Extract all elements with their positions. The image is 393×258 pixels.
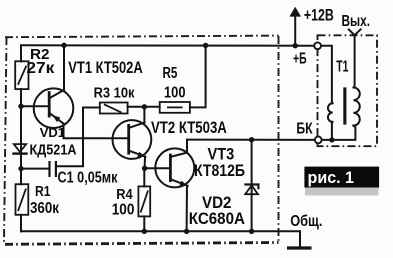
- wire VT2 emitter down: [144, 157, 146, 169]
- svg-text:Т1: Т1: [336, 59, 348, 76]
- svg-text:C1 0,05мк: C1 0,05мк: [58, 169, 118, 186]
- node +12V junction on rail: [293, 43, 298, 48]
- node VD1/C1/R1 junction: [18, 166, 23, 171]
- power +12V arrow: [289, 7, 301, 46]
- wire R2 to VD1: [20, 89, 22, 155]
- wire R4 top lead: [143, 168, 145, 186]
- node R4 on bottom rail: [142, 229, 147, 234]
- svg-text:КД521А: КД521А: [30, 142, 77, 159]
- svg-text:360к: 360к: [30, 200, 60, 217]
- wire bottom rail to ground: [299, 231, 301, 246]
- svg-text:+Б: +Б: [293, 51, 307, 68]
- wire R4 to bottom rail: [143, 216, 145, 231]
- figure caption ris.1 black box: [304, 167, 379, 196]
- wire bottom common rail: [21, 230, 300, 232]
- transformer T1 secondary winding: [353, 88, 359, 126]
- wire VT1 emitter to VT2 base: [64, 124, 128, 139]
- wire VT3 collector up to BK line: [186, 140, 188, 153]
- node primary bottom on BK line: [329, 137, 334, 142]
- svg-text:БК: БК: [296, 120, 312, 137]
- wire top supply rail: [21, 44, 314, 46]
- svg-text:VT2 КТ503А: VT2 КТ503А: [151, 119, 227, 137]
- wire C1 right lead up to R3: [57, 108, 100, 167]
- terminal +B circle: [314, 42, 321, 49]
- wire collector line to BK terminal: [187, 139, 315, 141]
- resistor R2: [15, 61, 28, 89]
- svg-text:VD1: VD1: [40, 125, 65, 140]
- svg-text:VT1 КТ502А: VT1 КТ502А: [68, 59, 142, 77]
- svg-text:100: 100: [164, 84, 186, 101]
- wire VT3 emitter to bottom rail: [186, 186, 188, 232]
- node R5 branch on rail: [203, 43, 208, 48]
- terminal BK circle: [315, 137, 322, 144]
- svg-text:Вых.: Вых.: [342, 13, 371, 30]
- capacitor C1: [50, 161, 56, 177]
- node VT2 collector junction: [142, 104, 147, 109]
- wire R3 to R5 rail: [128, 106, 160, 108]
- ground symbol: [287, 246, 312, 249]
- svg-text:R1: R1: [35, 183, 51, 200]
- transistor VT2: [112, 120, 151, 159]
- transformer T1 dashed enclosure border: [318, 35, 378, 146]
- wire R5 right to top rail: [190, 46, 206, 108]
- node VT1 collector on rail: [61, 43, 66, 48]
- svg-text:КС680А: КС680А: [189, 210, 245, 228]
- svg-text:Общ.: Общ.: [290, 213, 322, 230]
- diode VD1: [12, 144, 27, 154]
- zener diode VD2: [244, 185, 258, 195]
- transformer T1 primary winding: [328, 103, 333, 122]
- wire left branch: rail to R2: [20, 45, 22, 61]
- resistor R5: [160, 102, 190, 113]
- transformer T1 core: [343, 87, 346, 124]
- wire primary bottom: [331, 122, 333, 140]
- wire C1 left lead: [21, 168, 49, 170]
- wire VT1 base: [21, 105, 48, 107]
- svg-text:100: 100: [112, 202, 135, 219]
- svg-text:27к: 27к: [26, 60, 55, 77]
- wire VT1 collector to top rail: [63, 45, 65, 90]
- wire VT2 collector: [143, 107, 145, 123]
- svg-text:VT3: VT3: [208, 146, 235, 164]
- node base of VT1 junction: [18, 104, 23, 109]
- svg-text:R4: R4: [116, 186, 133, 203]
- wire VD2 top lead: [251, 140, 253, 194]
- resistor R4: [138, 186, 150, 216]
- output terminal Vykh antenna: [349, 29, 361, 87]
- svg-text:R5: R5: [163, 65, 178, 82]
- wire +B to primary winding: [321, 46, 332, 104]
- transistor VT3: [155, 148, 194, 187]
- main dashed enclosure border: [4, 36, 279, 245]
- wire R1 to bottom rail: [20, 215, 22, 232]
- resistor R3: [100, 103, 128, 114]
- svg-text:R3 10к: R3 10к: [94, 84, 135, 101]
- transistor VT1: [34, 88, 74, 128]
- svg-text:КТ812Б: КТ812Б: [194, 162, 245, 180]
- wire VD1 to C1/R1 node: [20, 155, 22, 184]
- node VD2 top junction: [249, 137, 254, 142]
- node VT3 emitter on bottom rail: [184, 229, 189, 234]
- node VD2 on bottom rail: [249, 229, 254, 234]
- wire to VT3 base: [145, 167, 169, 169]
- svg-text:рис. 1: рис. 1: [308, 168, 355, 187]
- wire secondary bottom to BK line: [322, 126, 356, 140]
- wire VD2 bottom lead: [251, 194, 253, 231]
- node VT2 emitter / R4 / VT3 base junction: [142, 166, 147, 171]
- resistor R1: [16, 184, 29, 215]
- svg-text:+12В: +12В: [304, 6, 334, 24]
